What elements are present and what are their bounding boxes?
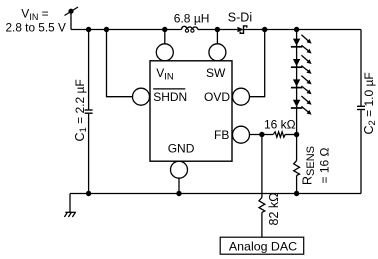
wire top rail left (terminal to inductor) <box>71 29 182 31</box>
svg-text:S-Di: S-Di <box>228 11 252 25</box>
ground symbol <box>64 212 76 217</box>
svg-text:FB: FB <box>214 128 229 142</box>
wire GND pin to bottom rail <box>178 178 180 193</box>
svg-text:RSENS: RSENS <box>301 146 317 185</box>
svg-text:2.8 to 5.5 V: 2.8 to 5.5 V <box>6 21 66 35</box>
svg-text:82 kΩ: 82 kΩ <box>267 193 281 226</box>
wire C2 rail lower <box>360 110 362 193</box>
svg-text:SW: SW <box>206 66 226 80</box>
resistor 82 kOhm <box>259 198 265 213</box>
wire top rail (inductor to diode) <box>198 29 238 31</box>
VIN input terminal <box>65 7 79 16</box>
wire C1 branch upper <box>88 30 90 110</box>
junction top rail / LED string <box>294 27 299 32</box>
junction bottom rail / RSENS <box>294 191 299 196</box>
inductor L 6.8 uH <box>182 26 198 29</box>
IC U1 body <box>150 61 232 161</box>
junction bottom rail / GND pin <box>176 191 181 196</box>
junction top rail / OVD branch <box>262 27 267 32</box>
svg-text:SHDN: SHDN <box>153 90 187 104</box>
svg-text:C1 = 2.2 µF: C1 = 2.2 µF <box>73 79 89 141</box>
wire C2 rail <box>360 30 362 106</box>
svg-text:16 kΩ: 16 kΩ <box>264 118 296 132</box>
svg-text:OVD: OVD <box>204 90 230 104</box>
diode D S-Di (Schottky) <box>237 26 246 33</box>
wire top rail (diode to right corner) <box>244 29 362 31</box>
junction top rail / VIN pin <box>162 27 167 32</box>
wire 16k resistor to LED junction <box>285 134 297 136</box>
svg-text:= 16 Ω: = 16 Ω <box>317 147 331 183</box>
pin SW (top) <box>209 30 226 61</box>
pin SHDN (left) <box>133 88 150 105</box>
LED D3 <box>291 76 312 95</box>
wire OVD branch <box>250 30 265 97</box>
junction top rail / SHDN branch <box>104 27 109 32</box>
LED D1 <box>291 35 312 54</box>
junction top rail / C1 branch <box>86 27 91 32</box>
wire SHDN branch <box>107 30 133 97</box>
wire 82k resistor to DAC <box>261 212 263 237</box>
junction FB / 82k branch <box>259 132 264 137</box>
resistor 16 kOhm <box>273 132 285 137</box>
LED D2 <box>291 55 312 74</box>
label VIN = <box>21 7 48 22</box>
pin VIN (top) <box>156 30 173 61</box>
pin GND (bottom) <box>171 161 188 178</box>
pin OVD (right) <box>233 88 250 105</box>
wire FB to 16k resistor <box>250 134 274 136</box>
Analog DAC box <box>220 237 304 254</box>
pin label SHDN (overline) <box>153 89 187 104</box>
capacitor C2 <box>357 106 365 109</box>
resistor RSENS <box>294 161 300 176</box>
wire VIN terminal to top rail <box>70 11 72 29</box>
bottom ground rail <box>70 193 361 195</box>
svg-text:GND: GND <box>168 142 195 156</box>
svg-text:VIN: VIN <box>156 66 174 82</box>
junction LED string / RSENS <box>294 132 299 137</box>
svg-text:C2 = 1.0 µF: C2 = 1.0 µF <box>362 72 378 134</box>
wire RSENS lower <box>296 176 298 194</box>
wire 82k branch upper <box>261 135 263 198</box>
wire C1 branch lower <box>88 114 90 194</box>
svg-text:6.8 µH: 6.8 µH <box>174 11 210 25</box>
wire RSENS upper <box>296 135 298 161</box>
wire ground stub <box>69 194 71 213</box>
LED string wire <box>296 30 298 135</box>
junction top rail / SW pin <box>215 27 220 32</box>
pin FB (right) <box>233 126 250 143</box>
capacitor C1 <box>85 110 93 113</box>
LED D4 <box>291 96 312 115</box>
svg-text:Analog DAC: Analog DAC <box>229 240 297 254</box>
junction bottom rail / C1 <box>86 191 91 196</box>
